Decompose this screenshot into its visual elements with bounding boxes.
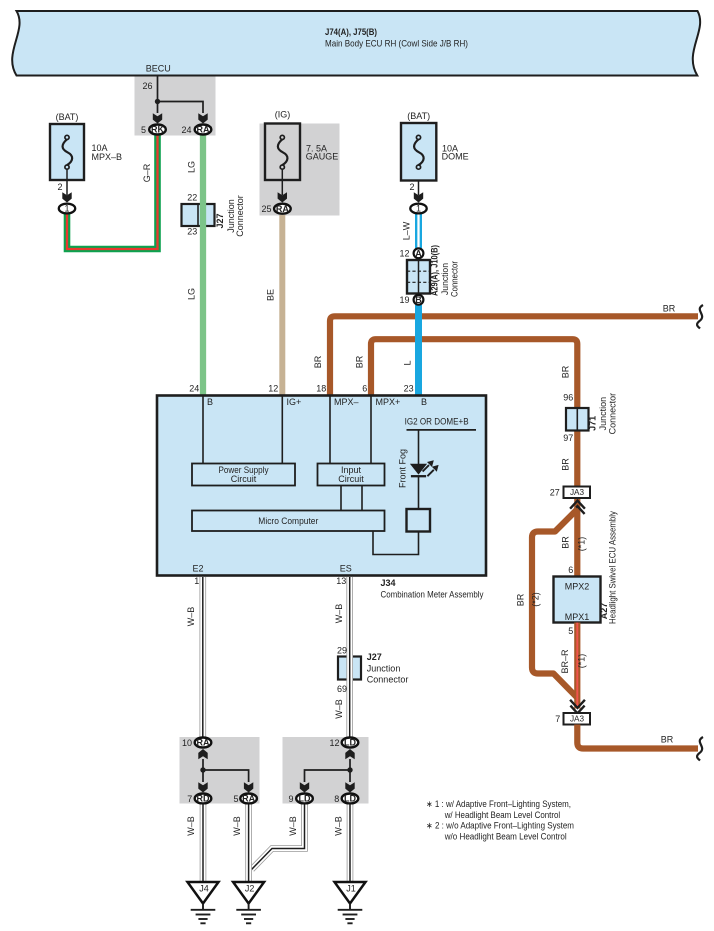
pin 5 of A27 — [568, 626, 573, 636]
connector JA3 pin 27 box — [550, 487, 590, 499]
svg-text:J34: J34 — [381, 578, 396, 588]
svg-text:BECU: BECU — [146, 64, 171, 74]
svg-text:MPX–B: MPX–B — [92, 152, 123, 162]
arrow into terminal RK — [153, 113, 162, 123]
input circuit block — [318, 464, 385, 486]
fuse GAUGE lead — [281, 169, 283, 195]
svg-text:Front Fog: Front Fog — [398, 449, 408, 488]
headlight swivel ECU A27 box — [554, 577, 601, 623]
internal wires input circuit to micro computer — [341, 486, 362, 511]
label J27 junction connector (lower) — [367, 652, 409, 685]
svg-text:7: 7 — [555, 714, 560, 724]
arrow into terminal RA — [198, 113, 207, 123]
junction connector A29(A),J10(B) grid box — [407, 260, 430, 294]
svg-text:Headlight Swivel ECU Assembly: Headlight Swivel ECU Assembly — [607, 511, 617, 624]
svg-text:19: 19 — [399, 295, 409, 305]
svg-text:(*2): (*2) — [531, 592, 541, 607]
svg-text:2: 2 — [409, 182, 414, 192]
svg-text:W–B: W–B — [288, 816, 298, 836]
svg-text:(*1): (*1) — [576, 654, 586, 669]
junction connector J27 (pins 29/69) box — [338, 657, 361, 680]
micro computer block — [192, 511, 385, 532]
svg-text:B: B — [415, 295, 422, 305]
wire BR from meter pin 6 via J71 to JA3 — [355, 339, 578, 486]
shaded panel behind IG fuse — [260, 124, 340, 216]
svg-text:12: 12 — [268, 384, 278, 394]
svg-text:A: A — [415, 248, 422, 258]
arrow into terminal 1 (DOME) — [414, 192, 423, 202]
svg-text:2: 2 — [57, 182, 62, 192]
svg-text:Connector: Connector — [367, 675, 409, 685]
svg-text:J4: J4 — [199, 884, 209, 894]
terminal 12 LD — [329, 738, 358, 749]
wire W-B terminal 8 LD to ground J1 — [334, 805, 351, 882]
label J71 junction connector — [588, 393, 618, 435]
meter top pin numbers 24 12 18 6 23 — [189, 384, 413, 394]
svg-text:29: 29 — [337, 646, 347, 656]
fuse DOME lead and pin 2 — [409, 181, 418, 196]
ground J2 — [233, 882, 264, 923]
svg-text:Junction: Junction — [367, 664, 401, 674]
pins 29/69 of J27 — [337, 646, 347, 695]
wire BR (*2) bypass branch — [515, 509, 577, 697]
wire W-B terminal 7 RD to ground J4 — [186, 805, 203, 882]
svg-text:J2: J2 — [245, 884, 255, 894]
label A29(A),J10(B) junction connector — [429, 245, 459, 297]
svg-text:5: 5 — [233, 794, 238, 804]
svg-text:5: 5 — [568, 626, 573, 636]
terminal 5 RK — [141, 125, 166, 136]
svg-text:∗ 1 : w/ Adaptive Front–Lighti: ∗ 1 : w/ Adaptive Front–Lighting System, — [426, 799, 571, 809]
wire W-B terminal 5 RA to ground J2 — [232, 805, 249, 882]
svg-text:1: 1 — [416, 203, 421, 213]
terminal 1 below DOME fuse — [410, 203, 426, 213]
svg-text:Connector: Connector — [449, 261, 459, 297]
svg-text:97: 97 — [563, 433, 573, 443]
meter top pin names B IG+ MPX- MPX+ B — [207, 397, 427, 407]
svg-text:25: 25 — [261, 204, 271, 214]
svg-text:RA: RA — [197, 125, 210, 135]
ground J1 — [335, 882, 366, 923]
arrow into terminal 1 (MPX-B) — [62, 192, 71, 202]
shaded panel behind BECU terminals — [135, 77, 216, 136]
wire G-R from terminal 1 to terminal RK — [67, 135, 158, 249]
svg-text:18: 18 — [316, 384, 326, 394]
svg-text:∗ 2 : w/o Adaptive Front–Light: ∗ 2 : w/o Adaptive Front–Lighting System — [426, 821, 574, 831]
svg-text:LG: LG — [187, 288, 197, 300]
svg-text:JA3: JA3 — [570, 715, 585, 724]
terminal 10 RA — [182, 738, 211, 749]
svg-text:RA: RA — [242, 794, 255, 804]
wire W-B from meter E2 pin 1 to terminal 10 RA — [186, 577, 203, 737]
connector terminal circle A pin 12 — [399, 248, 423, 258]
svg-text:LD: LD — [344, 794, 356, 804]
svg-text:69: 69 — [337, 684, 347, 694]
connector JA3 pin 7 box — [555, 713, 590, 725]
driver box — [407, 509, 431, 532]
terminal 25 RA — [261, 204, 290, 214]
terminal 9 LD — [288, 794, 312, 805]
svg-text:24: 24 — [181, 125, 191, 135]
svg-text:E2: E2 — [193, 564, 204, 574]
internal wire LED to driver box — [418, 476, 420, 509]
fuse 10A DOME — [401, 111, 469, 181]
right group branch wires — [305, 759, 351, 782]
pins 96/97 of J71 — [563, 393, 573, 444]
terminal 7 RD — [187, 794, 211, 805]
svg-text:BR: BR — [663, 304, 676, 314]
svg-text:ES: ES — [340, 564, 352, 574]
svg-text:MPX1: MPX1 — [565, 612, 590, 622]
svg-text:12: 12 — [329, 738, 339, 748]
wire from BECU pin 26 with junction — [158, 76, 204, 114]
pins 22/23 of J27 — [187, 193, 197, 237]
svg-text:22: 22 — [187, 193, 197, 203]
svg-text:W–B: W–B — [232, 816, 242, 836]
arrow into terminal 8 LD — [345, 782, 354, 792]
svg-text:J27: J27 — [215, 213, 225, 228]
svg-text:W–B: W–B — [334, 816, 344, 836]
internal wire pin 18 to input circuit — [329, 397, 331, 464]
svg-text:5: 5 — [141, 125, 146, 135]
internal wire pin 6 to input circuit — [370, 397, 372, 464]
svg-text:LD: LD — [299, 794, 311, 804]
svg-text:24: 24 — [189, 384, 199, 394]
svg-text:Connector: Connector — [235, 195, 245, 237]
svg-text:96: 96 — [563, 393, 573, 403]
pin 6 of A27 — [568, 565, 573, 575]
wire LG from terminal RA to meter pin 24 — [187, 135, 204, 396]
svg-text:W–B: W–B — [186, 816, 196, 836]
svg-text:26: 26 — [142, 81, 152, 91]
svg-text:BR: BR — [313, 355, 323, 368]
svg-text:(BAT): (BAT) — [407, 111, 430, 121]
arrow into terminal 9 LD — [300, 782, 309, 792]
fuse 10A MPX-B — [50, 112, 122, 180]
arrow into terminal 7 RD — [198, 782, 207, 792]
svg-text:BR: BR — [355, 355, 365, 368]
note *1 *2 adaptive front-lighting — [426, 799, 574, 842]
svg-text:10: 10 — [182, 738, 192, 748]
shaded panel bottom-left terminal group — [180, 737, 260, 804]
label J34 Combination Meter Assembly — [381, 578, 484, 600]
wire W-B from meter ES pin 13 through J27 to terminal 12 LD — [334, 577, 350, 737]
connector terminal circle B pin 19 — [399, 295, 423, 305]
svg-text:A29(A), J10(B): A29(A), J10(B) — [429, 245, 439, 296]
svg-text:w/ Headlight Beam Level Contro: w/ Headlight Beam Level Control — [444, 810, 560, 820]
internal wire driver box to micro computer — [373, 531, 419, 555]
svg-text:RA: RA — [276, 204, 289, 214]
svg-text:BR–R: BR–R — [560, 649, 570, 674]
svg-text:9: 9 — [288, 794, 293, 804]
pin 13 of meter ES — [336, 576, 346, 586]
svg-text:23: 23 — [187, 227, 197, 237]
svg-text:LG: LG — [187, 161, 197, 173]
terminal 8 LD — [334, 794, 358, 805]
junction connector J27 (pins 22/23) box — [182, 204, 215, 226]
svg-text:1: 1 — [64, 203, 69, 213]
left group branch wires — [203, 759, 249, 782]
wire labels BR (*1) upper — [561, 536, 587, 552]
fuse 7.5A GAUGE — [265, 110, 338, 181]
shield chevrons below JA3 27 — [570, 501, 585, 514]
svg-text:w/o Headlight Beam Level Contr: w/o Headlight Beam Level Control — [444, 832, 567, 842]
power supply circuit block — [192, 464, 295, 486]
svg-text:LD: LD — [344, 738, 356, 748]
svg-text:MPX2: MPX2 — [565, 582, 590, 592]
svg-text:12: 12 — [399, 249, 409, 259]
svg-text:6: 6 — [362, 384, 367, 394]
svg-text:1: 1 — [194, 576, 199, 586]
svg-text:MPX–: MPX– — [334, 397, 359, 407]
node IG2 OR DOME+B — [405, 417, 476, 465]
node BECU label — [146, 64, 171, 74]
terminal 5 RA — [233, 794, 256, 805]
wire W-B terminal 9 LD joining ground J2 — [252, 805, 305, 870]
ground J4 — [188, 882, 219, 923]
svg-text:Micro Computer: Micro Computer — [258, 516, 318, 526]
arrow into terminal 25 RA — [278, 192, 287, 202]
arrow up into terminal 12 LD — [345, 749, 354, 759]
svg-text:GAUGE: GAUGE — [306, 152, 339, 162]
terminal 1 below MPX-B fuse — [59, 203, 75, 213]
internal wire pin 12 to power supply circuit — [281, 397, 283, 464]
svg-text:(BAT): (BAT) — [56, 112, 79, 122]
svg-text:IG2 OR DOME+B: IG2 OR DOME+B — [405, 417, 469, 427]
svg-text:B: B — [207, 397, 213, 407]
wire L-W from terminal 1 to connector circle A — [401, 214, 418, 248]
svg-text:BR: BR — [661, 735, 674, 745]
svg-text:W–B: W–B — [186, 607, 196, 627]
terminal 24 RA — [181, 125, 211, 136]
junction block banner J74/J75 Main Body ECU RH — [12, 11, 700, 76]
svg-text:DOME: DOME — [442, 152, 469, 162]
combination meter assembly J34 box — [157, 396, 486, 576]
label A27 Headlight Swivel ECU Assembly — [599, 511, 617, 624]
label J27 junction connector (left) — [215, 195, 245, 237]
svg-text:(IG): (IG) — [275, 110, 291, 120]
svg-text:(*1): (*1) — [576, 537, 586, 552]
shield chevrons above JA3 7 — [570, 700, 585, 714]
svg-text:8: 8 — [334, 794, 339, 804]
svg-text:27: 27 — [550, 488, 560, 498]
svg-text:RD: RD — [197, 794, 210, 804]
svg-text:Connector: Connector — [607, 393, 617, 435]
junction dot right group — [347, 767, 352, 772]
svg-text:W–B: W–B — [334, 699, 344, 719]
svg-text:L–W: L–W — [401, 221, 411, 240]
svg-text:BR: BR — [515, 593, 525, 606]
junction dot at BECU branch — [155, 99, 160, 104]
svg-text:J27: J27 — [367, 652, 382, 662]
svg-text:RK: RK — [151, 125, 164, 135]
svg-text:J71: J71 — [588, 416, 598, 431]
svg-text:BE: BE — [266, 289, 276, 301]
fuse MPX-B lead and pin 2 — [57, 169, 67, 195]
wire BE from terminal 25 RA to meter pin 12 — [266, 215, 283, 396]
junction connector J71 (pins 96/97) box — [566, 408, 589, 431]
wire BR-R from A27 pin 5 to JA3 7 — [560, 623, 586, 709]
wire break squiggle bottom right — [697, 737, 703, 761]
svg-text:Combination Meter Assembly: Combination Meter Assembly — [381, 590, 484, 600]
svg-text:IG+: IG+ — [287, 397, 302, 407]
svg-text:J74(A), J75(B): J74(A), J75(B) — [325, 27, 377, 37]
svg-text:BR: BR — [561, 536, 571, 549]
svg-text:B: B — [421, 397, 427, 407]
svg-text:Main Body ECU RH (Cowl Side J/: Main Body ECU RH (Cowl Side J/B RH) — [325, 38, 468, 48]
arrow into terminal 5 RA — [244, 782, 253, 792]
svg-text:Circuit: Circuit — [338, 474, 364, 484]
pin 1 of meter E2 — [194, 576, 199, 586]
wire break squiggle top right — [697, 305, 703, 329]
svg-text:BR: BR — [561, 365, 571, 378]
LED front fog indicator — [398, 449, 439, 488]
pin 26 — [142, 81, 152, 91]
node E2 and ES labels — [193, 564, 352, 574]
wire BR from JA3 27 to A27 pin 6 — [574, 499, 580, 577]
shaded panel bottom-right terminal group — [283, 737, 369, 804]
svg-text:L: L — [402, 360, 412, 365]
svg-text:23: 23 — [404, 384, 414, 394]
arrow up into terminal 10 RA — [198, 749, 207, 759]
internal wire pin 24 to power supply circuit — [202, 397, 204, 464]
svg-text:G–R: G–R — [142, 163, 152, 182]
junction dot left group — [200, 767, 205, 772]
wire L from connector circle B to meter pin 23 — [402, 305, 418, 396]
svg-text:13: 13 — [336, 576, 346, 586]
svg-text:RA: RA — [197, 738, 210, 748]
svg-text:BR: BR — [561, 458, 571, 471]
svg-text:MPX+: MPX+ — [376, 397, 401, 407]
wire BR from JA3 7 to right edge break — [577, 725, 698, 749]
svg-text:7: 7 — [187, 794, 192, 804]
svg-text:JA3: JA3 — [570, 488, 585, 497]
svg-text:W–B: W–B — [334, 604, 344, 624]
wire BR from meter pin 18 to right edge break — [313, 304, 698, 397]
svg-text:6: 6 — [568, 565, 573, 575]
svg-text:J1: J1 — [346, 884, 356, 894]
svg-text:Circuit: Circuit — [231, 474, 257, 484]
